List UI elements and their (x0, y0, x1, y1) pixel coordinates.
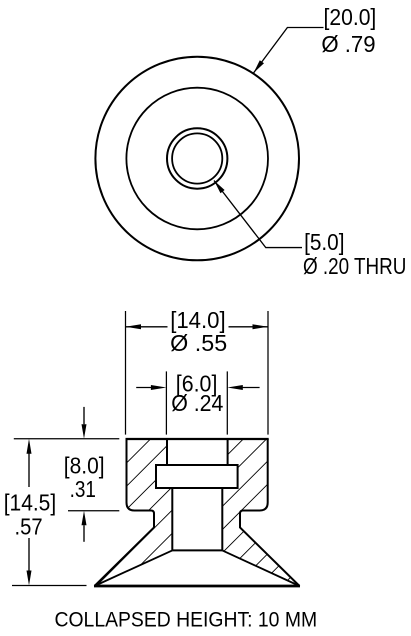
dimension [8.0]: bottom arrow tail (83, 525, 85, 542)
svg-text:Ø .20 THRU: Ø .20 THRU (303, 253, 406, 279)
shared top extension line for [8.0] and [14.5] (14, 438, 120, 440)
leader line for [20.0] (254, 28, 324, 74)
top view: hole circle Ø5 (172, 133, 222, 183)
dimension [14.0]: right arrowhead (253, 324, 269, 329)
dimension [14.5]: bottom extension line (12, 585, 87, 587)
dimension [8.0]: top arrow tail (83, 407, 85, 424)
bore Ø6 right wall (227, 439, 229, 465)
svg-text:.57: .57 (15, 514, 43, 540)
arrowhead of [20.0] leader (254, 60, 265, 73)
section hatching (0, 435, 411, 590)
dimension [6.0]: left arrowhead (151, 385, 167, 390)
svg-text:[8.0]: [8.0] (64, 453, 105, 479)
svg-text:Ø .24: Ø .24 (171, 390, 223, 416)
dimension [14.5]: lower dim line segment (28, 538, 30, 572)
dimension [8.0]: bottom extension line (68, 510, 119, 512)
leader line for [5.0] (214, 181, 302, 248)
dimension [14.0]: dim line left segment (126, 326, 168, 328)
dimension [14.0]: extension line right (267, 311, 269, 435)
skirt inner surface left (95, 550, 173, 586)
bore Ø5 left wall (171, 488, 173, 550)
cavity ceiling (172, 549, 222, 551)
section bottom edge (94, 585, 300, 588)
dimension [14.0]: dim line right segment (229, 326, 269, 328)
svg-text:Ø .55: Ø .55 (170, 330, 227, 356)
dimension [6.0]: left outside tail (136, 387, 152, 389)
dimension [6.0]: extension line left (165, 371, 167, 434)
dimension [8.0]: bottom arrowhead (82, 511, 87, 526)
top view: outer circle Ø20 (95, 57, 299, 261)
section outer profile right (240, 439, 300, 586)
dimension [14.0]: extension line left (125, 311, 127, 435)
dimension [14.5]: upper dim line segment (28, 453, 30, 487)
bore Ø6 left wall (166, 439, 168, 465)
dimension [6.0]: right outside tail (241, 387, 259, 389)
bore Ø5 right wall (221, 488, 223, 550)
collar groove outline (156, 465, 238, 488)
svg-text:[14.5]: [14.5] (4, 490, 57, 516)
svg-text:[20.0]: [20.0] (324, 4, 377, 30)
dimension [14.0]: left arrowhead (126, 324, 142, 329)
dimension [14.5]: top arrowhead (27, 439, 32, 454)
svg-text:Ø .79: Ø .79 (321, 31, 375, 57)
dimension [6.0]: extension line right (226, 371, 228, 434)
dimension [6.0]: right arrowhead (227, 385, 243, 390)
svg-text:.31: .31 (70, 476, 96, 502)
dimension [14.5]: bottom arrowhead (27, 571, 32, 586)
dimension [8.0]: top arrowhead (82, 424, 87, 439)
svg-text:COLLAPSED HEIGHT: 10 MM: COLLAPSED HEIGHT: 10 MM (55, 609, 318, 632)
svg-text:[5.0]: [5.0] (304, 229, 344, 255)
top view: flange circle Ø14 (126, 88, 268, 230)
top view: counterbore circle Ø6 (167, 128, 227, 188)
section top face (126, 438, 269, 440)
skirt inner surface right (222, 550, 299, 586)
section outer profile left (95, 439, 155, 586)
arrowhead of [5.0] leader (214, 181, 225, 194)
